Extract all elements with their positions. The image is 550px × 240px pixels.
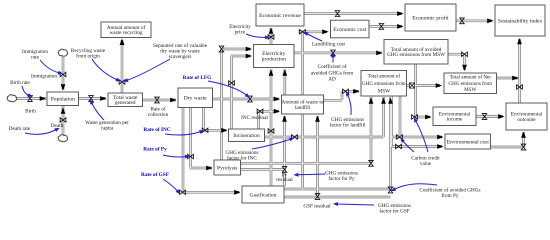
box pyrolysis [214,160,241,175]
valve recycling [119,80,125,85]
valve pyrolysis electricity [219,46,224,52]
wire pyrolysis to electricity vertical [220,49,223,160]
valve coefficient AD [331,50,336,56]
node INC residual arrow [274,109,280,114]
svg-text:production: production [262,57,286,63]
label death [51,123,64,129]
box total amount of avoided GHG emissions from MSW [384,40,448,65]
node pyrolysis to electricity arrow [246,47,252,52]
valve env cost outcome [521,144,526,150]
wire landfill to GHG horizontal low [323,99,342,102]
valve gasification electricity [268,129,274,134]
box total waste generated [108,93,143,107]
label INC residual [241,115,268,121]
wire carbon credit to env income influence [412,116,428,152]
wire death flow [62,105,65,135]
svg-text:Landfilling cost: Landfilling cost [312,41,346,48]
svg-text:waste recycling: waste recycling [109,30,142,36]
node GHG to env cost arrow 1 [437,135,443,140]
svg-text:generated: generated [115,100,136,106]
node incineration to GHG arrow up [381,98,386,104]
wire rate of LFG influence [208,81,251,99]
wire incineration to electricity vertical [230,56,233,129]
wire py residual horizontal [241,168,285,171]
wire INC residual vertical [257,111,260,129]
svg-text:avoided GHGs from: avoided GHGs from [311,69,353,76]
wire separated rate influence [122,59,170,84]
svg-text:GHG emissions from: GHG emissions from [362,80,406,87]
wire GHG factor Py influence [293,173,325,177]
box environmental outcome [506,103,547,130]
node revenue to profit arrow [397,11,403,16]
svg-text:MSW: MSW [378,88,390,94]
wire dry waste to incineration vertical [202,107,205,130]
svg-text:rate: rate [31,55,39,61]
wire electricity to avoided GHG horizontal [294,52,382,55]
svg-text:factor for GSF: factor for GSF [379,208,409,215]
svg-text:scavengers: scavengers [169,54,192,60]
valve gasification GHG [388,187,393,193]
valve GSF residual [315,194,320,200]
wire gasification to GHG horizontal [284,188,391,191]
wire pyrolysis to GHG vertical [370,97,373,163]
box environmental income [433,107,476,126]
wire env outcome to sustainability [518,39,521,103]
wire avoided GHG to net GHG horizontal [448,53,465,56]
svg-text:GHG emissions from MSW: GHG emissions from MSW [387,51,445,58]
node recycling arrow up [120,39,125,46]
node env income to outcome arrow [498,114,504,119]
valve revenue profit [335,11,340,17]
wire incineration to GHG vertical [382,97,385,137]
valve INC residual [257,109,263,114]
valve waste generation [89,96,94,102]
wire GHG to env cost horizontal 1 [392,136,443,139]
svg-text:Environmental cost: Environmental cost [447,139,490,145]
node incineration feed arrow [221,128,227,133]
wire avoided GHG to env income horizontal [416,116,431,119]
valve profit sustainability [460,18,465,24]
valve rate of INC [202,128,208,133]
wire total waste to dry waste [142,99,176,102]
svg-text:from origin: from origin [76,53,100,60]
svg-text:Coefficient of: Coefficient of [318,63,347,70]
wire coefficient AD influence [331,52,335,62]
wire GSF residual horizontal [284,196,391,199]
valve GHG factor INC [292,135,298,140]
wire birth flow [15,97,46,100]
node gasification to electricity arrow [269,70,274,76]
wire economic revenue to economic profit [304,12,402,15]
node cost to profit arrow [397,24,403,29]
svg-text:GSF residual: GSF residual [303,204,331,210]
label waste generation per capita [85,120,129,132]
svg-text:factor for INC: factor for INC [227,155,257,162]
label GHG emissions factor for INC [226,150,259,162]
svg-text:Rate of INC: Rate of INC [143,127,171,133]
label separated rate of valuable dry waste [153,42,208,60]
valve avoided net [462,52,468,57]
wire env cost to env outcome horizontal [490,146,524,149]
svg-text:Total amount of: Total amount of [368,73,401,80]
wire gasification to electricity vertical [270,69,273,186]
node gasification feed arrow [234,190,240,195]
box annual amount of waste recycling [101,22,151,38]
valve death [60,118,66,123]
wire immigration rate influence [40,60,63,76]
box total amount of GHG emissions from MSW [361,71,407,97]
valve GHG env cost 2 [396,144,402,149]
node net to sustainability arrow [512,76,518,81]
svg-text:Sustainability index: Sustainability index [498,18,543,24]
label GHG emissions factor for Py [325,171,358,183]
wire incineration to GHG horizontal [265,136,384,139]
wire INC residual horizontal [259,110,280,113]
wire rate of Py influence [163,154,190,159]
box economic profit [405,4,456,31]
node birth arrow [40,96,46,101]
valve landfilling cost [300,30,306,35]
wire landfill to GHG horizontal [342,90,359,93]
svg-text:price: price [235,30,246,36]
wire dry waste to gasification vertical [182,107,185,192]
node population outflow arrow [100,96,106,101]
wire GHG factor landfill influence [344,90,351,115]
label immigration [31,74,57,80]
wire pyrolysis to GHG horizontal [241,162,372,165]
svg-text:Rate of Py: Rate of Py [143,147,167,153]
svg-text:Dry waste: Dry waste [184,96,207,102]
wire avoided GHG to env income vertical [414,64,417,117]
node collection arrow [170,98,176,103]
svg-text:Immigration: Immigration [31,74,57,80]
valve rate of LFG [248,96,253,102]
node immigration source cloud [58,49,67,56]
wire landfilling cost influence [302,30,322,41]
svg-text:factor for Py: factor for Py [328,175,355,182]
box incineration [229,129,265,142]
label GHG emissions factor for GSF [378,203,411,215]
valve py residual [282,167,287,173]
label rate of LFG [183,75,212,81]
wire landfilling cost to economic cost [298,30,327,33]
node dry to landfill arrow [274,97,280,102]
wire waste generation influence [88,98,104,120]
label rate of Py [143,147,167,153]
wire dry waste to landfill [212,98,279,101]
wire birth rate influence [22,86,33,98]
wire incineration to electricity horizontal [231,55,251,58]
label birth [25,109,36,115]
svg-text:Population: Population [51,97,75,103]
svg-text:factor for landfill: factor for landfill [330,122,366,129]
svg-text:GHG emissions from: GHG emissions from [448,80,492,87]
label GHG emissions factor for landfill [330,117,366,129]
wire rate of GSF influence [163,179,182,196]
wire economic profit to sustainability [456,19,492,22]
valve GHG factor landfill [343,89,349,94]
svg-text:Rate of LFG: Rate of LFG [183,75,212,81]
label coefficient of avoided GHGs from AD [311,63,353,83]
svg-text:Economic revenue: Economic revenue [259,13,301,19]
label electricity price [229,24,251,36]
wire avoided GHG to net GHG vertical [463,54,466,70]
label recycling waste from origin [71,48,106,60]
wire landfill gas to electricity vertical [283,69,286,95]
valve env income outcome [482,114,487,120]
valve env outcome sustainability [517,85,523,90]
valve avoided env income [412,115,418,120]
wire total waste to annual recycling [121,40,124,94]
wire death rate influence [25,126,61,134]
wire net GHG to sustainability [497,77,519,80]
wire population to total waste [78,97,106,100]
box dry waste [178,88,213,108]
svg-text:residual: residual [276,177,293,183]
valve cost profit [379,24,384,30]
node landfill to GHG arrow [353,89,359,94]
valve immigration [60,72,66,77]
svg-text:Death rate: Death rate [9,126,31,132]
node death sink cloud [58,135,67,142]
wire env income to env outcome [476,115,503,118]
node pyrolysis to GHG arrow up [369,98,374,104]
label carbon credit value [411,156,440,168]
label birth rate [10,80,30,86]
valve rate of Py [188,154,194,159]
label death rate [9,126,31,132]
node landfilling to cost arrow [322,29,328,34]
wire economic cost to economic profit [369,25,402,28]
wire GHG to env cost vertical 2 [399,96,402,137]
wire electricity to economic revenue vertical [270,28,273,44]
node incineration to electricity arrow [246,54,252,59]
wire GHG to env cost horizontal 2 [392,145,443,148]
valve GHG env cost 1 [397,135,403,140]
node profit to sustainability arrow [487,18,493,23]
node pyrolysis feed arrow [206,166,212,171]
node immigration arrow [61,84,66,90]
wire dry waste to pyrolysis vertical [189,107,192,168]
box sustainability index [495,5,545,36]
wire landfilling cost vertical [301,32,304,189]
svg-text:income: income [447,117,463,123]
svg-text:Birth: Birth [25,109,36,115]
box population [47,92,79,106]
svg-text:value: value [420,161,432,167]
wire rate of INC influence [165,128,205,135]
svg-text:Economic cost: Economic cost [333,27,367,33]
label rate of INC [143,127,171,133]
node birth source cloud [7,95,16,102]
label landfilling cost [312,41,346,48]
wire dry waste to incineration horizontal [203,129,227,132]
svg-text:from Py: from Py [442,192,459,199]
box total amount of net GHG emissions from MSW [444,73,497,94]
label immigration rate [22,49,48,61]
svg-text:Incineration: Incineration [233,133,260,139]
label rate of GSF [141,172,169,178]
wire gasification feed horizontal [182,191,240,194]
svg-text:MSW: MSW [464,87,476,93]
svg-text:AD: AD [328,77,336,83]
wire GHG to env cost vertical 1 [390,96,393,147]
wire GHG factor INC influence [252,136,295,149]
wire pipe inner highlights [15,98,46,100]
wire env cost to env outcome vertical [522,132,525,147]
node landfill gas to electricity arrow [282,70,287,76]
node death arrow up [61,108,66,114]
svg-text:Pyrolysis: Pyrolysis [217,165,237,171]
svg-text:INC residual: INC residual [241,115,268,121]
wire GHG factor GSF influence [333,202,374,206]
node gasification to GHG arrow up [388,98,393,104]
wire coefficient Py influence [390,184,437,193]
label py residual [276,173,293,184]
box environmental cost [445,134,491,149]
wire carbon credit to env cost influence [399,136,414,152]
valve rate of collection [155,97,160,103]
node avoided to env income arrow [425,115,431,120]
node GSF residual to landfill arrow up [315,116,320,122]
svg-text:Gasification: Gasification [250,191,277,198]
svg-text:Rate of GSF: Rate of GSF [141,172,169,178]
node GHG to net arrow [436,83,442,88]
wire dry waste to pyrolysis horizontal [190,167,213,170]
label coefficient of avoided GHGs from Py [419,187,480,200]
box amount of waste to landfill [282,95,324,114]
svg-text:Total amount of Net: Total amount of Net [450,74,492,81]
wire electricity price influence [246,34,270,39]
node electricity to revenue arrow [269,28,274,34]
wire gasification to GHG vertical [389,97,392,190]
node env cost to outcome arrow up [521,132,526,138]
wire recycling origin influence [92,59,122,83]
wire py residual vertical [283,116,286,186]
valve rate of GSF [180,190,186,195]
node env outcome to sustainability arrow up [517,38,522,44]
label rate of collection [148,106,169,119]
node GHG to env cost arrow 2 [437,144,443,149]
svg-text:capita: capita [101,126,114,132]
valve birth rate [28,96,33,102]
svg-text:landfill: landfill [295,104,311,111]
wire GHG to net GHG [407,84,441,87]
wire pyrolysis to electricity horizontal [221,48,251,51]
wire landfill to GHG vertical [341,91,344,100]
box gasification [242,186,284,203]
svg-text:Birth rate: Birth rate [10,80,30,86]
valve py GHG [369,160,374,166]
svg-text:outcome: outcome [517,117,536,123]
node avoided to net arrow down [462,65,467,71]
box electricity production [254,45,295,68]
valve incineration electricity [229,81,235,86]
box economic revenue [256,4,304,26]
wire GSF residual vertical [316,116,319,197]
node electricity to avoided arrow [376,51,382,56]
node py residual to landfill arrow up [282,116,287,122]
label GSF residual [303,204,331,210]
svg-text:collection: collection [148,112,169,118]
svg-text:Economic profit: Economic profit [412,14,449,21]
wire immigration flow [62,57,65,90]
box economic cost [331,20,370,38]
valve GHG to net square [409,83,414,88]
valve electricity price [268,35,274,40]
